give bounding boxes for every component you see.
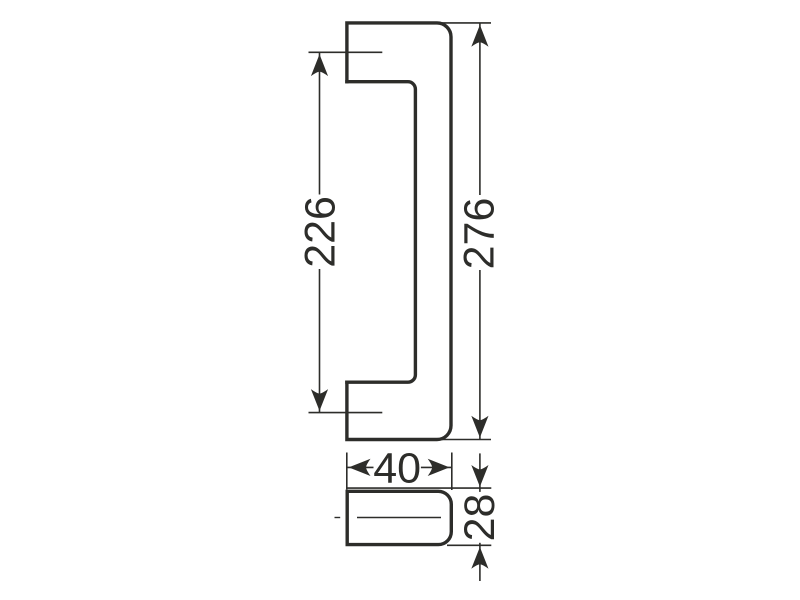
handle section view (bottom): rounded profile [347,491,451,544]
dimension 276: top extension line [438,22,492,24]
dimension 28: top arrow (down) [471,465,488,487]
dimension 28: top arrow shaft [479,453,481,492]
handle side view: outer contour (open between mounting legs) [347,23,451,440]
dimension 40: left extension line [346,453,348,490]
dimension 276: arrow down [471,416,488,438]
section centerline [357,517,441,519]
dimension 40: arrow left [349,459,371,476]
dimension 40: line segments [347,466,374,468]
dimension 276: line segments [479,23,481,195]
hole centerline bottom [309,412,383,414]
svg-text:276: 276 [456,198,504,270]
dimension 28: bottom extension line [447,544,491,546]
dimension 40: arrow right [428,459,450,476]
dimension 28: top extension line [347,487,492,489]
dimension 28: bottom arrow shaft [479,543,481,581]
dimension 276: arrow up [471,25,488,47]
svg-text:226: 226 [296,196,344,268]
svg-text:28: 28 [456,494,504,542]
section centerline dash [335,517,341,519]
handle side view: inner contour (grip cutout) [345,82,415,383]
dimension 226: line segments [319,53,321,195]
hole centerline top [309,51,383,53]
dimension 276: bottom extension line [441,439,491,441]
dimension 40: right extension line [451,453,453,491]
svg-text:40: 40 [373,445,421,493]
dimension 226: arrow up [311,54,328,76]
dimension 226: arrow down [311,389,328,411]
dimension 28: bottom arrow (up) [471,547,488,569]
